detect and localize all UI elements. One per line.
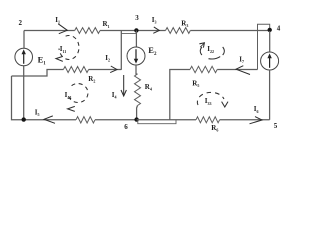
current arrow I1	[58, 24, 67, 34]
wire node 4 down to E3	[269, 31, 271, 52]
resistor R2	[63, 67, 88, 73]
wire R5 to riser x=257	[217, 69, 257, 71]
wire left branch verticals to E1	[23, 31, 25, 120]
resistor bottom-left	[76, 117, 95, 123]
current arrow I4 down	[121, 75, 126, 96]
node 6 lower double line	[138, 120, 176, 124]
wire R1 to node 3	[100, 30, 166, 32]
wire R3 to node 4	[190, 30, 269, 32]
node 4 junction dot	[268, 28, 272, 32]
source E2 (arrow down)	[127, 47, 145, 65]
resistor R5	[190, 66, 217, 72]
current arrow I6 right	[250, 117, 263, 124]
svg-text:3: 3	[135, 14, 139, 22]
voltage source E1	[15, 48, 33, 66]
current arrow I3	[153, 27, 159, 33]
mesh loop I33 dashed arc	[197, 92, 228, 107]
wire top-left from node 2 corner to R1	[24, 30, 75, 32]
mesh loop I11 dashed ellipse	[56, 36, 79, 62]
mesh loop I22 dashed ellipse	[199, 43, 224, 59]
source E3 (arrow up)	[261, 52, 279, 70]
current arrow I7 left	[236, 66, 250, 75]
resistor R3	[166, 28, 191, 34]
resistor R6	[196, 117, 220, 123]
wire node 6 to R6	[137, 119, 196, 121]
wire mid-right riser from bottom wire	[170, 70, 190, 120]
svg-text:2: 2	[19, 19, 23, 27]
wire node 3 down to E2	[135, 31, 137, 48]
wire R4 down to node 6	[136, 106, 139, 120]
svg-text:6: 6	[124, 123, 128, 131]
node 6 junction dot	[134, 117, 138, 121]
wire R2 to riser	[89, 69, 122, 71]
wire E2 to R4	[136, 65, 138, 74]
wire to node 6	[95, 119, 137, 121]
wire riser x=121 up to top wire	[120, 31, 122, 70]
mesh loop I44 dashed ellipse	[68, 84, 88, 112]
svg-text:5: 5	[274, 122, 278, 130]
wire left stub down and bottom-left corner	[12, 76, 24, 120]
wire E3 down to node 5 corner	[269, 70, 271, 120]
junction dot bottom-left node	[22, 117, 26, 121]
resistor R1	[75, 28, 100, 34]
current arrow I2	[110, 66, 117, 73]
wire bottom-left	[24, 119, 76, 121]
wire mid-left stub with jog	[12, 70, 64, 77]
resistor R4 vertical	[135, 74, 141, 106]
wire R6 to node 5 corner	[220, 119, 270, 121]
node 3 junction dot	[134, 28, 138, 32]
current arrow I5 left	[44, 116, 55, 123]
wire riser x=257 with node 4 jog	[258, 24, 270, 69]
svg-text:4: 4	[277, 25, 281, 33]
wire node 3 lower jog	[121, 31, 136, 34]
